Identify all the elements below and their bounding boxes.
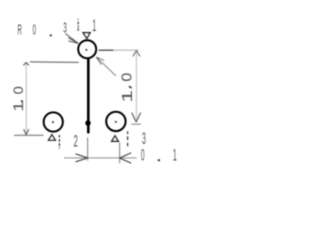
center lead (stem) — [87, 59, 90, 132]
svg-text:.: . — [50, 24, 52, 40]
svg-text:.: . — [158, 146, 160, 164]
svg-text:0: 0 — [11, 86, 27, 94]
svg-text:.: . — [10, 99, 26, 103]
datum triangle top — [83, 33, 90, 39]
datum triangle bottom-right — [112, 136, 119, 142]
dim line right 1.0 — [132, 50, 141, 122]
svg-text:0: 0 — [33, 23, 36, 39]
extension line upper-left — [30, 61, 79, 64]
pad P1 center dot — [85, 49, 87, 51]
svg-text:1: 1 — [119, 90, 135, 103]
extension line upper-right (light part) — [114, 49, 139, 51]
bottom dim arrow left — [120, 153, 132, 163]
leader to top pad — [65, 34, 78, 44]
extension line upper-right (dark lead part) — [99, 49, 114, 51]
dim text right 1.0 (rotated) — [119, 73, 136, 103]
extension line lower-left — [14, 134, 44, 136]
svg-text:.: . — [120, 86, 136, 90]
centerline below P2 — [58, 135, 60, 149]
svg-text:1: 1 — [92, 15, 96, 35]
extension line below stem — [87, 138, 89, 161]
lead ball — [85, 120, 90, 126]
extension line below P3 — [119, 143, 121, 164]
extension line lower-right — [131, 123, 140, 125]
pad P1 (top circle) — [78, 40, 96, 58]
bottom dim line — [64, 157, 137, 159]
label R0.3 — [18, 19, 67, 40]
pad P2 center dot — [52, 121, 54, 123]
bottom dim arrow right — [76, 154, 88, 162]
centerline below P3 — [127, 131, 129, 146]
leader lower-right of top pad — [96, 57, 116, 76]
svg-text:R: R — [18, 23, 22, 39]
svg-text:0: 0 — [119, 73, 135, 82]
dim text 0.1 — [141, 146, 177, 165]
dim line left 1.0 — [23, 62, 29, 135]
svg-text:0: 0 — [141, 146, 145, 164]
pad P3 center dot — [115, 121, 117, 123]
pad P2 (bottom-left circle) — [44, 112, 63, 131]
svg-text:2: 2 — [74, 131, 78, 150]
datum triangle bottom-left — [48, 135, 55, 141]
svg-text:1: 1 — [173, 146, 177, 164]
centerline pin1 — [77, 18, 79, 30]
pad P3 (bottom-right circle) — [106, 112, 125, 131]
dim text left 1.0 (rotated) — [10, 86, 27, 112]
